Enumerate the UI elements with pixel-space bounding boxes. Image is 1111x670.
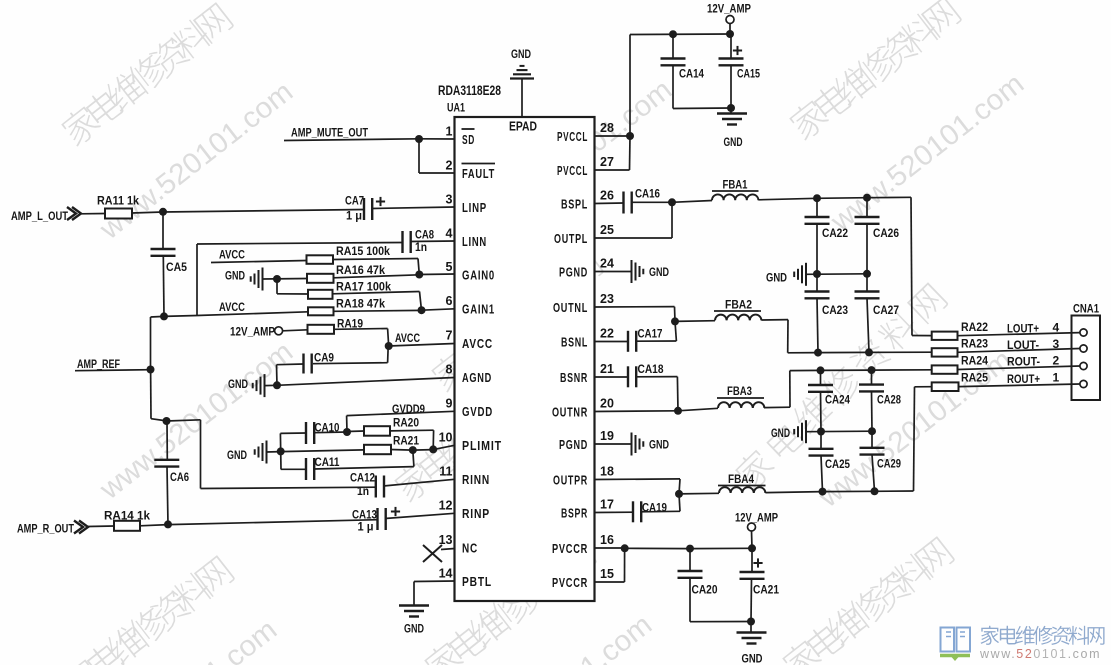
svg-text:16: 16 xyxy=(600,533,614,547)
capacitor CA21 polarized xyxy=(751,548,753,572)
svg-text:1: 1 xyxy=(446,125,453,139)
capacitor CA20 xyxy=(689,549,691,571)
svg-text:CA24: CA24 xyxy=(825,395,851,407)
capacitor CA13 polarized xyxy=(376,508,378,530)
wire CA8 to pin 4 xyxy=(410,240,455,243)
svg-text:ROUT+: ROUT+ xyxy=(1007,372,1040,386)
wire to FBA4 xyxy=(679,492,719,495)
svg-text:GND: GND xyxy=(404,624,424,636)
svg-text:PBTL: PBTL xyxy=(462,575,492,589)
wire RA22 left xyxy=(912,335,932,337)
capacitor CA22 xyxy=(816,198,818,217)
junction CA10 RA20 xyxy=(343,428,351,436)
svg-text:15: 15 xyxy=(600,567,614,581)
svg-text:OUTPL: OUTPL xyxy=(554,232,588,246)
wire CA14 CA15 bottoms xyxy=(673,107,731,110)
svg-text:BSNL: BSNL xyxy=(561,336,588,350)
svg-text:CA6: CA6 xyxy=(170,470,189,484)
junction CA21 top xyxy=(748,544,756,552)
watermark xyxy=(786,0,963,142)
svg-text:7: 7 xyxy=(446,329,453,343)
svg-text:CA17: CA17 xyxy=(638,329,663,341)
svg-text:OUTNL: OUTNL xyxy=(553,301,588,315)
svg-text:PVCCR: PVCCR xyxy=(552,576,588,590)
svg-text:CA26: CA26 xyxy=(873,228,899,240)
wire CA6 column xyxy=(166,421,168,460)
capacitor CA9 xyxy=(302,354,304,374)
svg-text:GND: GND xyxy=(766,273,787,285)
wire FBA4 out row xyxy=(765,492,822,493)
junction CA5 bottom xyxy=(160,312,168,320)
svg-text:24: 24 xyxy=(600,257,614,271)
capacitor CA23 xyxy=(816,274,818,292)
svg-text:RA17 100k: RA17 100k xyxy=(336,280,391,294)
watermark xyxy=(59,553,236,670)
svg-text:CA16: CA16 xyxy=(635,189,660,201)
ground pin 8 xyxy=(264,374,266,397)
svg-text:4: 4 xyxy=(446,227,453,241)
resistor RA20 xyxy=(364,426,390,436)
svg-text:1 μ: 1 μ xyxy=(346,211,362,223)
svg-text:RINN: RINN xyxy=(462,473,490,487)
wire pin 25 loop xyxy=(595,237,673,239)
wire 12V rail to pin 28 xyxy=(629,35,631,137)
svg-text:3: 3 xyxy=(1053,337,1060,351)
svg-text:AGND: AGND xyxy=(462,371,492,385)
svg-text:PVCCL: PVCCL xyxy=(557,164,588,178)
watermark xyxy=(93,76,299,247)
svg-text:9: 9 xyxy=(446,397,453,411)
svg-text:AMP_R_OUT: AMP_R_OUT xyxy=(17,522,75,536)
svg-text:12V_AMP: 12V_AMP xyxy=(735,513,778,525)
wire RA11 to node xyxy=(132,212,163,213)
wire to RA11 xyxy=(81,213,105,215)
svg-text:CA20: CA20 xyxy=(692,585,718,597)
svg-text:12V_AMP: 12V_AMP xyxy=(707,4,751,16)
resistor RA16 xyxy=(307,274,334,283)
wire pin 20 xyxy=(595,410,679,413)
wire to FBA2 xyxy=(675,320,715,323)
inductor FBA1 xyxy=(712,194,758,200)
resistor RA19 xyxy=(308,325,335,334)
svg-text:20: 20 xyxy=(600,397,614,411)
svg-text:26: 26 xyxy=(600,189,614,203)
svg-text:CA15: CA15 xyxy=(737,69,760,81)
wire AVCC box top to CA8 xyxy=(197,243,402,245)
capacitor CA6 xyxy=(154,459,179,461)
resistor RA24 xyxy=(932,365,958,373)
capacitor CA15 polarized xyxy=(730,34,732,59)
wire RA16 right xyxy=(334,275,420,278)
capacitor CA25 xyxy=(820,432,822,449)
capacitor CA5 xyxy=(151,248,176,250)
junction CA22 top xyxy=(813,194,821,202)
junction AMP_R node xyxy=(164,520,172,528)
ground gain divider xyxy=(262,268,264,291)
wire to FBA1 xyxy=(672,201,712,203)
wire RA25 to pin 1 xyxy=(959,384,1080,387)
wire AVCC row1 xyxy=(211,261,307,263)
wire pin 8 xyxy=(265,384,278,386)
junction AMP_REF xyxy=(147,366,155,374)
wire CA12 to pin 11 xyxy=(383,479,454,486)
svg-text:EPAD: EPAD xyxy=(509,120,537,134)
svg-text:CNA1: CNA1 xyxy=(1073,302,1099,316)
junction gnd plimit xyxy=(277,447,285,455)
svg-text:4: 4 xyxy=(1053,321,1060,335)
watermark xyxy=(824,68,1030,239)
svg-text:RA18 47k: RA18 47k xyxy=(336,297,385,311)
svg-text:RA11 1k: RA11 1k xyxy=(97,194,139,208)
svg-text:OUTPR: OUTPR xyxy=(553,474,588,488)
svg-text:3: 3 xyxy=(446,193,453,207)
wire RA18 right xyxy=(334,309,422,312)
wire CA6 down xyxy=(167,467,168,525)
wire pin 9 xyxy=(347,411,455,415)
underline FBA4 xyxy=(718,485,766,487)
watermark xyxy=(421,536,598,670)
resistor RA14 xyxy=(114,521,140,531)
watermark xyxy=(77,614,283,670)
junction pin 8 gnd row xyxy=(273,381,281,389)
wire plimit row xyxy=(281,450,364,452)
resistor RA11 xyxy=(105,209,132,219)
svg-text:CA22: CA22 xyxy=(822,228,848,240)
svg-text:1 μ: 1 μ xyxy=(358,522,374,534)
svg-text:2: 2 xyxy=(446,159,453,173)
svg-text:RA14 1k: RA14 1k xyxy=(104,509,150,523)
wire AVCC down to CA9 xyxy=(387,346,390,363)
svg-text:NC: NC xyxy=(462,542,478,556)
wire gnd to RA16 xyxy=(263,278,308,281)
svg-text:10: 10 xyxy=(439,431,453,445)
pin 3 circle xyxy=(1080,345,1087,352)
watermark xyxy=(779,534,956,670)
svg-text:BSPR: BSPR xyxy=(561,507,588,521)
junction CA24 mid xyxy=(817,428,825,436)
wire RINN row xyxy=(201,487,376,488)
svg-text:GND: GND xyxy=(742,654,763,666)
wire pin 16 xyxy=(595,547,625,549)
svg-text:CA5: CA5 xyxy=(166,260,187,274)
svg-text:RINP: RINP xyxy=(462,507,490,521)
wire gnd row right xyxy=(806,430,872,433)
wire 12V to rail xyxy=(751,531,754,548)
wire CA16 to FBA1 xyxy=(631,201,672,203)
wire to RA19 xyxy=(283,330,308,331)
svg-text:CA28: CA28 xyxy=(877,395,901,407)
capacitor CA14 xyxy=(672,34,674,59)
op-amp U1 RDA3118E28 class-D amplifier IC body xyxy=(455,117,595,601)
junction CA14 top xyxy=(669,30,677,38)
junction CA23 bottom xyxy=(814,349,822,357)
ground above EPAD xyxy=(510,77,534,79)
svg-text:GND: GND xyxy=(649,440,669,452)
svg-text:RDA3118E28: RDA3118E28 xyxy=(438,83,501,98)
wire EPAD to ground xyxy=(521,79,523,118)
wire 12V rail horizontal xyxy=(630,33,730,36)
wire CA11 left xyxy=(281,468,306,470)
watermark xyxy=(732,281,950,493)
svg-text:CA7: CA7 xyxy=(345,194,364,208)
svg-text:GND: GND xyxy=(511,49,531,61)
svg-text:22: 22 xyxy=(600,327,614,341)
junction pin 28 xyxy=(626,132,634,140)
svg-text:LOUT+: LOUT+ xyxy=(1007,322,1039,336)
svg-text:GND: GND xyxy=(227,450,247,462)
svg-text:CA14: CA14 xyxy=(679,69,705,81)
svg-text:CA8: CA8 xyxy=(415,230,434,242)
svg-text:21: 21 xyxy=(600,362,614,376)
resistor RA25 xyxy=(932,382,959,391)
watermark xyxy=(472,74,678,245)
wire pin 14 xyxy=(414,580,455,583)
input arrow AMP_L_OUT xyxy=(67,207,81,220)
svg-text:GND: GND xyxy=(228,379,248,391)
wire pin 18 xyxy=(595,478,681,481)
svg-text:UA1: UA1 xyxy=(447,101,465,115)
svg-text:GVDD: GVDD xyxy=(462,405,493,419)
wire CA10 left xyxy=(280,432,306,434)
junction CA22 mid xyxy=(813,270,821,278)
svg-text:PVCCL: PVCCL xyxy=(557,130,588,144)
wire FBA1 output row xyxy=(758,198,817,200)
wire pin15 loop xyxy=(624,548,626,582)
junction RA20 pin10 xyxy=(429,445,437,453)
capacitor CA10 xyxy=(305,422,307,444)
svg-text:AMP_MUTE_OUT: AMP_MUTE_OUT xyxy=(291,126,369,140)
wire CA18 to node xyxy=(636,376,678,378)
svg-text:1n: 1n xyxy=(357,486,369,498)
ground top right xyxy=(730,108,732,113)
svg-text:RA20: RA20 xyxy=(393,418,419,430)
svg-text:6: 6 xyxy=(446,294,453,308)
svg-text:GND: GND xyxy=(225,271,245,283)
wire RA15 right xyxy=(333,259,418,260)
wire pin 19 xyxy=(595,443,632,445)
svg-text:FBA1: FBA1 xyxy=(723,178,748,192)
overline for SD xyxy=(462,128,475,130)
resistor RA23 xyxy=(932,348,958,356)
svg-text:CA13: CA13 xyxy=(352,510,377,522)
capacitor CA28 xyxy=(871,370,873,385)
wire CA19 to node xyxy=(641,510,681,513)
wire AVCC box left vertical xyxy=(196,244,198,315)
ground mid row xyxy=(805,263,807,286)
capacitor CA11 xyxy=(305,458,307,480)
junction BSNL node xyxy=(671,317,679,325)
watermark xyxy=(391,356,568,504)
svg-text:GND: GND xyxy=(724,137,743,149)
wire cap bottoms xyxy=(690,621,751,623)
junction CA28 top xyxy=(868,366,876,374)
wire ROUT- row xyxy=(790,369,821,371)
junction CA21 bottom xyxy=(747,618,755,626)
junction CA24 top xyxy=(817,366,825,374)
wire AMP_REF column down xyxy=(150,370,152,419)
svg-text:RA16 47k: RA16 47k xyxy=(336,263,385,277)
resistor RA22 xyxy=(932,332,958,340)
svg-text:LINP: LINP xyxy=(462,201,487,215)
capacitor CA8 xyxy=(401,231,403,253)
wire LOUT+ feed corner xyxy=(911,197,912,335)
watermark xyxy=(452,609,658,670)
wire RINP row xyxy=(168,520,378,525)
svg-text:RA21: RA21 xyxy=(393,436,420,448)
svg-text:11: 11 xyxy=(439,465,452,479)
wire RA14 to node xyxy=(140,525,168,526)
capacitor CA24 xyxy=(820,370,822,385)
wire pin 26 xyxy=(595,202,624,205)
inductor FBA4 xyxy=(719,487,765,493)
wire LOUT- row xyxy=(788,352,818,354)
inductor FBA3 xyxy=(718,402,764,408)
junction CA15 top xyxy=(726,30,734,38)
wire node to CA7 xyxy=(163,210,364,213)
svg-text:17: 17 xyxy=(600,498,614,512)
resistor RA18 xyxy=(308,307,334,315)
svg-text:RA23: RA23 xyxy=(961,337,988,351)
ground plimit xyxy=(266,441,268,464)
svg-text:CA11: CA11 xyxy=(315,457,341,469)
inductor FBA2 xyxy=(715,315,761,321)
wire ROUT+ corner up xyxy=(914,387,915,491)
wire CA9 right xyxy=(313,363,388,364)
wire CA13 to pin 12 xyxy=(385,513,455,518)
pin 4 circle xyxy=(1080,329,1087,336)
svg-text:CA21: CA21 xyxy=(753,585,780,597)
watermark xyxy=(93,336,299,507)
svg-text:8: 8 xyxy=(446,363,453,377)
wire to RA14 xyxy=(88,525,114,528)
ground right mid xyxy=(805,420,807,443)
svg-text:1: 1 xyxy=(1053,371,1060,385)
node 12V_AMP terminal xyxy=(275,327,283,335)
svg-text:FAULT: FAULT xyxy=(462,167,495,181)
wire CA5 down xyxy=(162,256,165,317)
svg-text:18: 18 xyxy=(600,465,614,479)
watermark xyxy=(428,246,605,394)
svg-text:RA22: RA22 xyxy=(961,320,988,334)
svg-text:CA27: CA27 xyxy=(873,305,899,317)
svg-text:www.520101.com: www.520101.com xyxy=(979,647,1101,661)
wire pin 23 xyxy=(595,306,675,308)
svg-text:14: 14 xyxy=(439,567,453,581)
svg-text:GND: GND xyxy=(649,267,669,279)
overline for FAULT xyxy=(462,163,496,165)
svg-text:ROUT-: ROUT- xyxy=(1007,355,1040,369)
wire RA20 xyxy=(347,430,364,433)
logo text xyxy=(981,626,1105,645)
junction CA29 bottom xyxy=(871,487,879,495)
svg-text:27: 27 xyxy=(600,155,614,169)
wire pin 17 xyxy=(595,511,634,513)
junction CA26 top xyxy=(863,194,871,202)
svg-text:SD: SD xyxy=(462,133,475,147)
svg-text:28: 28 xyxy=(600,121,614,135)
svg-text:PGND: PGND xyxy=(559,266,588,280)
svg-text:2: 2 xyxy=(1053,354,1060,368)
ground pin 24 xyxy=(631,260,633,283)
watermark xyxy=(58,0,235,148)
wire gnd to junction xyxy=(267,451,281,453)
wire CA17 to node xyxy=(636,340,677,342)
underline FBA3 xyxy=(717,397,764,399)
junction CA25 bottom xyxy=(819,488,827,496)
svg-text:BSNR: BSNR xyxy=(560,371,588,385)
junction AVCC pin7 xyxy=(385,342,393,350)
svg-text:RA25: RA25 xyxy=(961,371,988,385)
wire pin 5 xyxy=(419,273,454,276)
svg-text:CA12: CA12 xyxy=(350,473,375,485)
junction OUTPR node xyxy=(675,490,683,498)
wire pin 22 xyxy=(595,341,629,343)
junction pin1 xyxy=(415,135,423,143)
wire RA17 right xyxy=(333,292,420,294)
ground pin 19 xyxy=(631,433,633,456)
svg-text:FBA3: FBA3 xyxy=(727,384,752,398)
svg-text:PGND: PGND xyxy=(559,438,588,452)
svg-text:LOUT-: LOUT- xyxy=(1007,338,1039,352)
resistor RA21 xyxy=(364,445,391,454)
wire pin 7 xyxy=(389,344,455,347)
wire pin28 to pin27 xyxy=(629,136,632,170)
svg-text:CA9: CA9 xyxy=(314,351,334,365)
svg-text:OUTNR: OUTNR xyxy=(552,406,588,420)
wire RA22 to pin 4 xyxy=(958,333,1080,336)
svg-text:RA24: RA24 xyxy=(961,354,988,368)
wire jog to AMP_REF column xyxy=(151,315,165,318)
wire RA19 right xyxy=(334,328,388,331)
wire CA9 left xyxy=(277,363,304,366)
junction CA26 mid xyxy=(863,270,871,278)
capacitor CA27 xyxy=(866,274,868,292)
svg-text:19: 19 xyxy=(600,429,614,443)
svg-text:AVCC: AVCC xyxy=(462,337,493,351)
wire pin 13 xyxy=(441,549,455,550)
capacitor CA18 xyxy=(627,366,629,387)
ground bottom xyxy=(750,622,752,633)
wire AVCC row2 xyxy=(164,315,197,318)
connector CNA1 body xyxy=(1072,316,1101,401)
wire to RA17 xyxy=(277,293,308,295)
svg-text:CA18: CA18 xyxy=(638,364,665,376)
junction OUTNR node xyxy=(674,407,682,415)
resistor RA15 xyxy=(307,255,334,263)
capacitor CA17 xyxy=(627,331,629,352)
wire FBA2 out xyxy=(761,319,788,321)
svg-text:AMP_L_OUT: AMP_L_OUT xyxy=(11,209,69,223)
svg-text:1n: 1n xyxy=(415,242,427,254)
junction CA11 pin10 xyxy=(409,446,417,454)
node 12V_AMP terminal bottom xyxy=(748,523,756,531)
svg-text:25: 25 xyxy=(600,223,614,237)
svg-text:AVCC: AVCC xyxy=(219,248,245,262)
capacitor CA12 xyxy=(375,476,377,498)
svg-text:GAIN1: GAIN1 xyxy=(462,303,495,317)
wire CA10 right xyxy=(314,431,348,434)
junction CA27 bottom xyxy=(865,348,873,356)
svg-text:CA23: CA23 xyxy=(822,305,848,317)
wire pin 21 xyxy=(595,376,629,378)
svg-text:GND: GND xyxy=(771,428,790,440)
wire node down to CA5 xyxy=(162,212,164,249)
svg-text:CA25: CA25 xyxy=(825,459,851,471)
wire RA24 to pin 2 xyxy=(958,366,1080,370)
svg-text:CA29: CA29 xyxy=(877,459,901,471)
wire to pin 2 xyxy=(418,139,420,173)
capacitor CA26 xyxy=(866,198,868,217)
